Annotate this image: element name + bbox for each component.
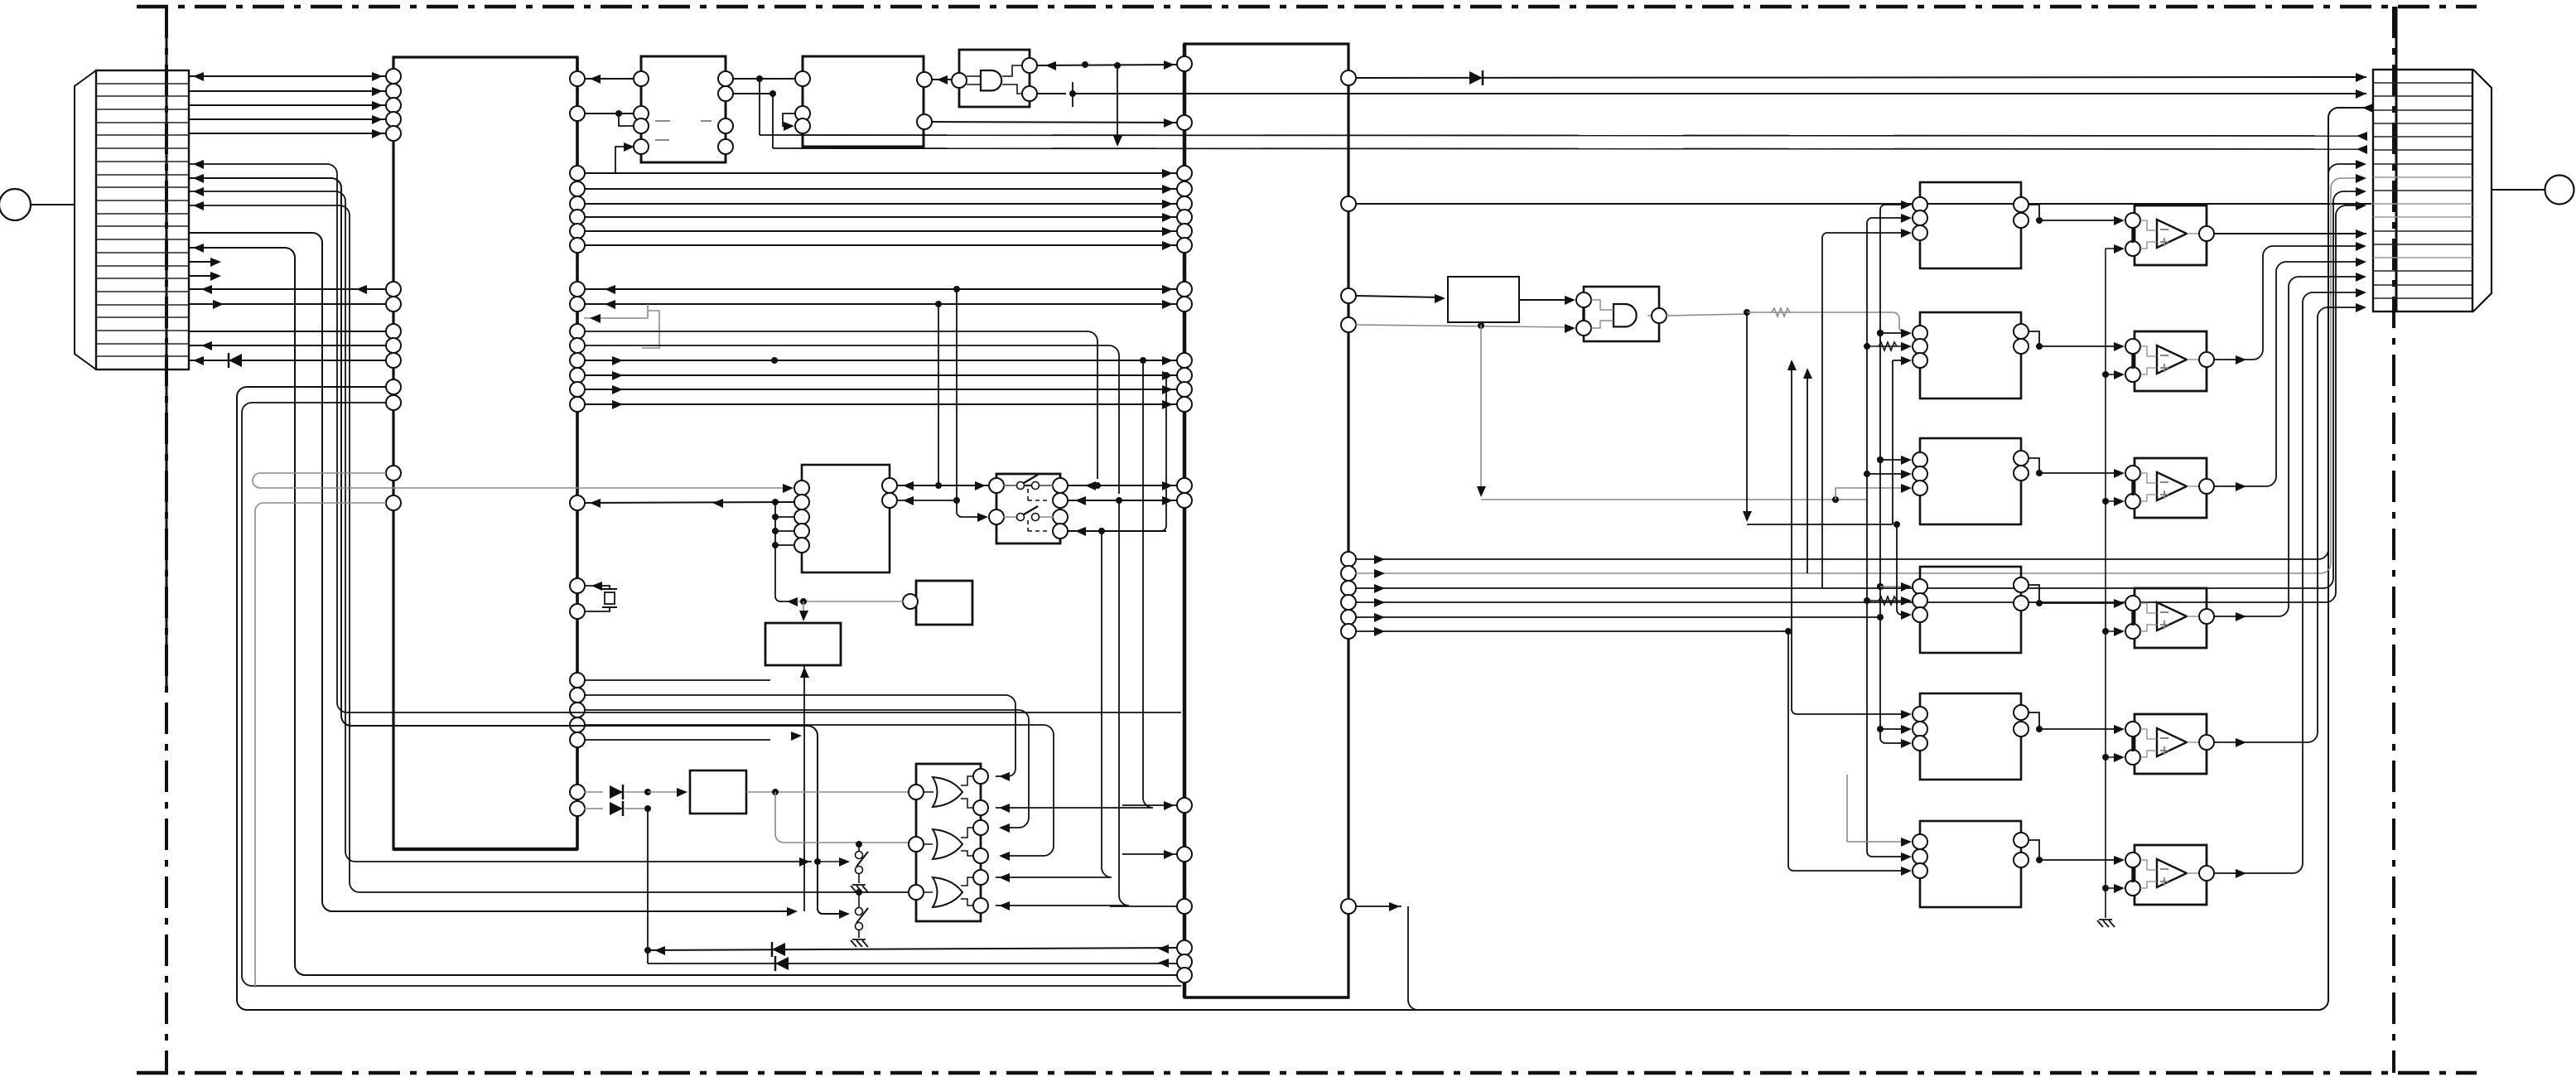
- U5 output pin bottom: [1022, 86, 1037, 101]
- S1 left pin y586: [989, 478, 1004, 493]
- G1 in stub: [924, 791, 933, 793]
- A3 input pin inv: [2125, 466, 2140, 481]
- U11 in step b: [1591, 321, 1614, 328]
- vertical x917: [759, 79, 760, 135]
- arrow B5 y880: [1901, 725, 1912, 734]
- U1 left pin y607: [386, 495, 401, 510]
- arrow mid y435: [612, 356, 623, 365]
- connector CN1 pin row 15: [96, 265, 189, 267]
- B6 left pin y1016: [1913, 834, 1927, 849]
- IC R2 block: [1448, 277, 1519, 322]
- arrow into U3 pin177: [624, 142, 634, 152]
- connector CN2 pin row 14: [2373, 257, 2472, 258]
- OR gate G1: [933, 777, 962, 807]
- connector CN1 pin row 22: [96, 355, 189, 357]
- U2 left pin y435: [1177, 353, 1192, 368]
- connector CN2 pin row 5: [2373, 136, 2472, 138]
- diode D3 y976: [610, 802, 623, 815]
- wire bottom run to y1219: [1408, 906, 1418, 1010]
- connector CN1 body: [96, 70, 189, 369]
- wire CN1 row248 down bundle: [188, 205, 909, 892]
- bus wire y675 to CN2 row198: [1355, 164, 2357, 559]
- arrow into OR y937: [999, 772, 1010, 781]
- U1 right pin y400: [570, 324, 585, 339]
- crystal X1 plate bottom: [602, 606, 617, 608]
- U10 left pin y1019: [909, 837, 924, 852]
- arrow x1788 down: [1477, 486, 1486, 497]
- U4 left pin y95: [795, 71, 810, 86]
- vertical x971 U8 down: [803, 665, 805, 911]
- stub B4 y708: [1880, 586, 1907, 587]
- op-amp A3 triangle: [2157, 472, 2187, 500]
- tee switch SW0 y1019: [856, 841, 862, 848]
- A4 input link: [2131, 610, 2134, 625]
- A3 out stub: [2187, 485, 2200, 487]
- connector CN2 body: [2373, 70, 2472, 312]
- wire B5 to opamp: [2039, 728, 2120, 730]
- U1 right pin y875: [570, 717, 585, 732]
- A1 in step a: [2140, 220, 2157, 230]
- wire B1 to opamp: [2039, 220, 2120, 221]
- arrow bus right y675: [1374, 555, 1385, 564]
- wire D3 to junction: [625, 808, 648, 809]
- connector CN1 pin row 16: [96, 278, 189, 279]
- wire CN1 stub row333: [188, 275, 215, 277]
- op-amp A4 triangle: [2157, 602, 2187, 630]
- vertical x2285: [1892, 360, 1893, 524]
- U1 left pin y367: [386, 297, 401, 312]
- bus wire U1-U2 y279: [584, 230, 1178, 232]
- arrow into opamp A1: [2114, 216, 2125, 225]
- U3 left pin y95: [634, 71, 649, 86]
- B1 left pin y281: [1913, 225, 1927, 240]
- stub U6 pin658: [775, 544, 795, 546]
- tee x935 y435: [771, 357, 778, 364]
- B5 right pin y860: [2014, 705, 2028, 720]
- wire CN1 stub row316: [188, 261, 215, 263]
- arrow rail A1: [2114, 244, 2125, 254]
- arrow into R1: [677, 788, 687, 797]
- junction x1349 y79: [1114, 62, 1121, 69]
- vertical x782 down: [647, 809, 649, 964]
- bus wire y710 to CN2 row231: [1355, 191, 2357, 588]
- A1 input pin non: [2125, 241, 2140, 256]
- wire U1 y821: [584, 679, 770, 681]
- S1 dashed link a horiz: [1028, 500, 1050, 501]
- U1 right pin y607: [570, 495, 585, 510]
- arrow into CN2 row248: [2356, 201, 2366, 210]
- arrow into U1 pin y110: [372, 87, 383, 96]
- U1 right pin y296: [570, 238, 585, 253]
- A3 output pin: [2199, 479, 2214, 494]
- bus wire y762: [1355, 630, 1788, 632]
- rail junction A2: [2102, 371, 2109, 378]
- arrow x1349 down: [1113, 136, 1122, 147]
- G3 out step a: [961, 877, 974, 886]
- A2 plus mark: [2160, 364, 2168, 372]
- connector CN2 pin row 1: [2373, 82, 2472, 84]
- U6 right pin y586: [882, 478, 897, 493]
- U2 right pin y1094: [1341, 899, 1356, 914]
- U2 left pin y1094: [1177, 899, 1192, 914]
- connector CN2 pin row 4: [2373, 123, 2472, 124]
- A6 output pin: [2199, 866, 2214, 881]
- A1 input link: [2131, 227, 2134, 243]
- arrow rail A2: [2114, 370, 2125, 379]
- IC U3 reset block: [641, 56, 726, 162]
- diode D2 y956: [610, 785, 623, 799]
- U5 output step bottom: [1002, 85, 1022, 94]
- wire y586 U6 to U2: [896, 485, 1178, 486]
- arrow gray into U6 y589: [783, 484, 794, 493]
- IC B1 driver block: [1920, 182, 2021, 268]
- junction x782 y1147: [644, 947, 651, 954]
- connector CN1 shell: [0, 0, 1, 1]
- bus wire U1-U2 y209: [584, 172, 1178, 174]
- wire rail to A1 non-inv: [2106, 248, 2120, 249]
- tee x1133 y586: [935, 482, 942, 489]
- arrow y1094: [1389, 902, 1400, 911]
- wire CN1 to U1 y367: [188, 303, 386, 305]
- tee x936 y641: [772, 528, 779, 534]
- wire SWa top to OR2 net: [858, 844, 860, 851]
- vertical x1408: [1161, 375, 1166, 531]
- B4 left pin y742: [1913, 607, 1927, 622]
- dot x1351 y604: [1116, 497, 1122, 504]
- A6 out stub: [2187, 872, 2200, 874]
- S1a stub right: [1040, 485, 1054, 486]
- switch S1a contacts: [1017, 482, 1025, 490]
- arrow y488: [1162, 400, 1173, 409]
- arrow into U1 y607: [590, 499, 601, 508]
- arrow into OR y975: [999, 804, 1010, 813]
- arrow CN2 y334: [2356, 273, 2366, 282]
- wire U2 pin392 gray: [1355, 325, 1571, 327]
- arrow y349 left: [605, 285, 615, 294]
- bus wire y745: [1355, 616, 1880, 618]
- arrow into U6 y604: [903, 496, 914, 505]
- U2 left pin y77: [1177, 56, 1192, 71]
- U6 left pin y624: [794, 510, 809, 524]
- arrow into B1 y263: [1901, 214, 1912, 223]
- U3 inner dash c: [655, 139, 669, 141]
- stub into U2 pin972: [1122, 804, 1178, 806]
- tee x1330 y641: [1098, 528, 1105, 534]
- arrow into OR y999: [999, 823, 1010, 833]
- A5 input pin non: [2125, 750, 2140, 765]
- wire U2 y246 to CN2: [1355, 203, 2371, 205]
- wire U1 y607 to U6 pin606: [584, 502, 795, 503]
- wire rail to A5 non-inv: [2106, 756, 2120, 758]
- U1 left pin y467: [386, 379, 401, 394]
- wire CN1 to U1 y435: [188, 360, 386, 361]
- arrow into CN1 row198: [193, 160, 204, 169]
- A5 in step b: [2140, 751, 2157, 757]
- A6 input pin non: [2125, 881, 2140, 896]
- stub x2285 to B2 pin435: [1893, 360, 1907, 361]
- S1 right pin y641: [1053, 524, 1068, 538]
- IC U9 block R1: [690, 770, 746, 814]
- arrow at x936 corner: [787, 597, 798, 606]
- arrow into CN2 row231: [2356, 187, 2366, 196]
- arrow into B1 y281: [1901, 229, 1912, 238]
- arrow into SW y586: [975, 481, 986, 490]
- wire y470 U1 to U2: [584, 389, 1178, 390]
- tee x2270 B3 y555: [1877, 456, 1884, 463]
- arrow U4 loop: [784, 122, 794, 131]
- arrow out U8 bottom: [800, 667, 809, 678]
- junction x782 y976: [644, 805, 651, 812]
- wire U1 y893: [584, 739, 770, 741]
- arrow into U4 pin96: [937, 75, 948, 85]
- IC B6 driver block: [1920, 821, 2021, 907]
- A4 minus mark: [2160, 611, 2168, 613]
- IC U2 jungle/processor block: [1184, 44, 1348, 997]
- arrow into OR y1059: [999, 873, 1010, 882]
- B2 left pin y435: [1913, 353, 1927, 368]
- U6 left pin y606: [794, 495, 809, 510]
- junction B4 out: [2036, 600, 2043, 606]
- U10 right pin y1033: [973, 848, 988, 863]
- junction x782 y956: [644, 789, 651, 795]
- U3 right pin y95: [718, 71, 733, 86]
- U2 left pin y1031: [1177, 847, 1192, 862]
- arrow into OR y1093: [999, 901, 1010, 910]
- tee x2270 y708: [1877, 583, 1884, 590]
- U1 right pin y453: [570, 368, 585, 383]
- tee x2270 y555: [1877, 456, 1884, 463]
- A1 input pin inv: [2125, 213, 2140, 228]
- U11 out stub: [1647, 315, 1652, 316]
- A4 input pin inv: [2125, 596, 2140, 611]
- B3 left pin y589: [1913, 481, 1927, 495]
- U10 left pin y956: [909, 785, 924, 799]
- A5 minus mark: [2160, 737, 2168, 739]
- U2 left pin y148: [1177, 115, 1192, 130]
- A3 minus mark: [2160, 481, 2168, 483]
- wire x1226 into OR pin937: [996, 769, 1015, 776]
- arrow U2 pin1031: [1164, 850, 1175, 859]
- U1 right pin y976: [570, 801, 585, 816]
- connector CN2 cable ring: [2545, 176, 2574, 205]
- wire U1 y839 to OR: [584, 695, 1015, 769]
- U4 right pin y96: [917, 72, 932, 87]
- U1 left pin y92: [386, 69, 401, 84]
- arrow into S1 y604: [1075, 496, 1086, 505]
- stub U6 pin641: [775, 530, 795, 532]
- wire y435 U1 to U2: [584, 360, 1178, 361]
- U1 left pin y417: [386, 338, 401, 353]
- arrow B2 y418: [1901, 342, 1912, 351]
- U11 input pin b: [1576, 321, 1591, 336]
- B1 right pin y247: [2014, 197, 2028, 212]
- bus wire y727 to CN2 row248: [1355, 205, 2357, 602]
- wire CN2 pin130 tail: [2357, 107, 2371, 109]
- A2 in step b: [2140, 368, 2157, 374]
- U10 right pin y999: [973, 820, 988, 835]
- A6 plus mark: [2160, 877, 2168, 886]
- arrow into opamp A2: [2114, 342, 2125, 351]
- arrow B3 y555: [1901, 456, 1912, 465]
- connector CN1 cable ring: [0, 189, 31, 220]
- U10 right pin y937: [973, 769, 988, 784]
- B2 output step: [2028, 331, 2039, 346]
- connector CN2 pin row 9: [2373, 190, 2472, 191]
- S1 right pin y624: [1053, 510, 1068, 524]
- U3 left pin y177: [634, 139, 649, 154]
- op-amp A1 enclosure: [2135, 205, 2207, 265]
- stub B5 y880: [1880, 728, 1907, 730]
- wire B3 to opamp: [2039, 472, 2120, 474]
- switch SWb: [856, 908, 863, 915]
- B6 right pin y1014: [2014, 833, 2028, 848]
- A2 input pin inv: [2125, 339, 2140, 354]
- tee x1133 y367: [935, 301, 942, 307]
- arrow y1144 at U2: [1158, 944, 1169, 954]
- B6 left pin y1034: [1913, 849, 1927, 864]
- tee x1408 y453: [1163, 372, 1170, 379]
- arrow y349 a: [201, 285, 212, 294]
- arrow bus right y710: [1374, 584, 1385, 593]
- wire U4 out147 to U2 pin148: [931, 122, 1178, 123]
- U2 right pin y357: [1341, 288, 1356, 303]
- U1 right pin y821: [570, 673, 585, 688]
- G1 out step a: [961, 776, 974, 785]
- U1 right pin y956: [570, 785, 585, 799]
- B3 left pin y555: [1913, 452, 1927, 467]
- op-amp A6 triangle: [2157, 859, 2187, 887]
- wire A6 out riser: [2213, 292, 2361, 873]
- A1 plus mark: [2160, 238, 2168, 246]
- IC B5 driver block: [1920, 693, 2021, 780]
- A2 minus mark: [2160, 355, 2168, 356]
- arrow B4 y725: [1901, 596, 1912, 606]
- vertical x1330 down: [996, 531, 1112, 877]
- vertical x1351 full: [996, 500, 1129, 906]
- arrow y586 right: [1085, 481, 1096, 490]
- U5 input pin: [952, 73, 967, 88]
- wire A4 out riser: [2213, 277, 2361, 616]
- connector CN2 pin row 2: [2373, 95, 2472, 97]
- S1 dashed link a: [1027, 489, 1029, 500]
- arrow into CN1 row215: [193, 174, 204, 183]
- wire U5 out79 to U2 pin77: [1036, 65, 1178, 65]
- U1 right pin y488: [570, 397, 585, 412]
- wire y163 long: [760, 135, 2361, 136]
- B2 right pin y418: [2014, 339, 2028, 354]
- bus wire U1-U2 y296: [584, 244, 1178, 246]
- vertical x2270 lower: [1880, 617, 1907, 743]
- wire y417 to switch riser: [584, 345, 1119, 494]
- wire U1 pin467 big L to bottom: [237, 108, 2357, 1010]
- A2 out stub: [2187, 359, 2200, 360]
- B5 output step: [2028, 712, 2039, 729]
- stub B2 y418: [1867, 345, 1907, 347]
- A6 minus mark: [2160, 868, 2168, 870]
- tee x2216 y603: [1832, 496, 1839, 503]
- A3 input pin non: [2125, 494, 2140, 509]
- junction x987 y1040: [814, 858, 821, 865]
- junction x1788 y392: [1478, 322, 1484, 329]
- tee x1380 y435: [1140, 357, 1146, 364]
- connector CN1 pin row 3: [96, 109, 189, 110]
- diode D4 y1147: [772, 943, 785, 956]
- wire rail to A2 non-inv: [2106, 374, 2120, 375]
- arrow into SWa: [839, 857, 850, 867]
- U11 in step a: [1591, 300, 1614, 310]
- U2 left edge accent: [1183, 44, 1187, 997]
- bus wire U1-U2 y228: [584, 188, 1178, 190]
- U2 right pin y727: [1341, 595, 1356, 610]
- arrow bus y228: [1162, 185, 1173, 194]
- arrow into U6 y586: [903, 481, 914, 490]
- arrow into U8 top: [799, 611, 808, 621]
- wire SWa bottom to gnd: [858, 874, 860, 883]
- rail junction A6: [2102, 885, 2109, 891]
- U6 right pin y604: [882, 493, 897, 508]
- connector CN1 pin row 21: [96, 343, 189, 345]
- B6 output step: [2028, 840, 2039, 860]
- U2 left pin y604: [1177, 493, 1192, 508]
- junction y113 x1295: [1069, 90, 1076, 97]
- wire U3-U4 y95: [733, 78, 796, 80]
- diode D1 on y435: [229, 354, 242, 367]
- U6 left pin y658: [794, 538, 809, 553]
- wire U3 pin113 stub: [733, 93, 773, 94]
- U1 right pin y435: [570, 353, 585, 368]
- wire U4 out y96 to AND1: [931, 79, 953, 80]
- vertical x1155: [956, 289, 958, 500]
- rail junction A3: [2102, 498, 2109, 505]
- A1 minus mark: [2160, 229, 2168, 230]
- tee x2159 y762: [1785, 628, 1792, 635]
- bus wire y692 to CN2 row215: [1355, 178, 2357, 573]
- A5 out stub: [2187, 741, 2200, 743]
- vertical x970 into U8: [803, 601, 804, 620]
- U2 right pin y675: [1341, 552, 1356, 567]
- wire CN1 to U1 pin y110: [188, 90, 386, 92]
- wire A1 out to CN2: [2213, 233, 2366, 234]
- connector CN1 pin row 18: [96, 304, 189, 306]
- wire SWb top to OR3 net: [858, 892, 860, 907]
- arrow into CN2 row215: [2356, 174, 2366, 183]
- gate array U10 enclosure: [916, 764, 981, 921]
- arrow bus right y762: [1374, 627, 1385, 636]
- wire SW1 arrow stub: [818, 861, 845, 862]
- arrow stub row333: [210, 272, 221, 281]
- U10 right pin y1059: [973, 870, 988, 885]
- wire U3 pin152 up-loop: [619, 113, 634, 126]
- B5 left pin y862: [1913, 707, 1927, 722]
- vertical x1349 from y79: [1117, 65, 1118, 142]
- vertical x2109: [1746, 312, 1748, 519]
- arrow bus y279: [1162, 227, 1173, 236]
- U1 left pin y161: [386, 126, 401, 141]
- U5 output step top: [1002, 65, 1022, 76]
- U1 right pin y857: [570, 703, 585, 717]
- U1 right edge accent: [576, 57, 579, 849]
- arrow into U1 y707: [591, 582, 602, 591]
- U3 left pin y137: [634, 106, 649, 121]
- wire S1 y604 to U2: [1067, 500, 1178, 501]
- arrow into B2 y435: [1901, 356, 1912, 365]
- wire rail to A6 non-inv: [2106, 887, 2120, 889]
- U7 left pin: [903, 594, 918, 609]
- wire CN1 to U1 pin y127: [188, 104, 386, 106]
- wire CN1 row215 down bundle: [188, 178, 839, 914]
- A6 input link: [2131, 867, 2134, 882]
- U1 right pin y367: [570, 297, 585, 312]
